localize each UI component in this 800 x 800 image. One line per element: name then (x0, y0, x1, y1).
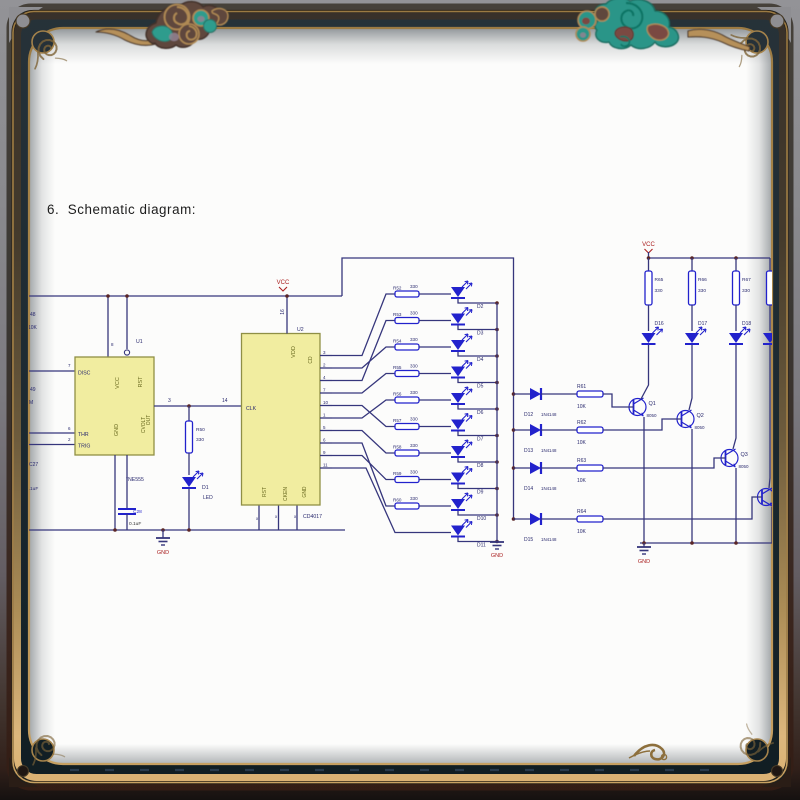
svg-text:10K: 10K (577, 478, 587, 484)
svg-text:R55: R55 (393, 365, 402, 370)
svg-text:330: 330 (655, 288, 663, 294)
svg-text:D18: D18 (742, 321, 751, 327)
svg-text:330: 330 (410, 311, 418, 316)
svg-text:U2: U2 (297, 327, 304, 333)
svg-text:C27: C27 (29, 462, 38, 468)
svg-text:1N4148: 1N4148 (541, 486, 557, 491)
svg-text:OUT: OUT (146, 415, 152, 426)
svg-text:330: 330 (196, 437, 204, 443)
svg-text:M: M (29, 400, 33, 406)
svg-text:GND: GND (491, 553, 503, 559)
svg-text:R50: R50 (196, 427, 205, 433)
svg-text:THR: THR (78, 432, 89, 438)
svg-text:D13: D13 (524, 448, 533, 454)
svg-text:CD4017: CD4017 (303, 514, 322, 520)
svg-text:R59: R59 (393, 471, 402, 476)
svg-text:R58: R58 (393, 445, 402, 450)
svg-text:8050: 8050 (739, 464, 750, 469)
svg-text:R66: R66 (698, 277, 707, 283)
svg-text:R62: R62 (577, 420, 586, 426)
svg-text:3: 3 (168, 398, 171, 404)
svg-text:D15: D15 (524, 537, 533, 543)
svg-text:11: 11 (323, 463, 328, 468)
svg-text:R57: R57 (393, 418, 402, 423)
svg-text:CLK: CLK (246, 406, 257, 412)
svg-text:330: 330 (410, 337, 418, 342)
svg-text:R60: R60 (393, 498, 402, 503)
svg-text:R53: R53 (393, 312, 402, 317)
svg-text:GND: GND (638, 559, 650, 565)
svg-text:330: 330 (410, 390, 418, 395)
svg-text:C28: C28 (133, 509, 142, 515)
svg-text:D7: D7 (477, 437, 484, 443)
svg-text:RST: RST (262, 487, 268, 497)
svg-text:8050: 8050 (695, 425, 706, 430)
svg-text:D5: D5 (477, 384, 484, 390)
svg-text:D9: D9 (477, 490, 484, 496)
svg-text:GND: GND (114, 424, 120, 436)
svg-text:10: 10 (323, 400, 329, 405)
svg-text:R64: R64 (577, 509, 586, 515)
svg-text:R52: R52 (393, 286, 402, 291)
svg-text:TRIG: TRIG (78, 444, 90, 450)
svg-text:VCC: VCC (115, 377, 121, 389)
svg-text:330: 330 (410, 470, 418, 475)
svg-text:D1: D1 (202, 485, 209, 491)
svg-text:330: 330 (410, 284, 418, 289)
svg-text:49: 49 (30, 387, 36, 393)
svg-text:10K: 10K (577, 529, 587, 535)
svg-text:330: 330 (410, 496, 418, 501)
svg-text:330: 330 (410, 364, 418, 369)
svg-text:10K: 10K (577, 404, 587, 410)
svg-text:VCC: VCC (277, 280, 290, 286)
svg-text:Q1: Q1 (649, 401, 656, 407)
svg-text:10K: 10K (577, 440, 587, 446)
svg-text:D2: D2 (477, 304, 484, 310)
svg-text:VCC: VCC (642, 242, 655, 248)
svg-text:14: 14 (222, 398, 228, 404)
svg-text:16: 16 (280, 309, 286, 315)
svg-text:RST: RST (138, 376, 144, 388)
svg-text:330: 330 (698, 288, 706, 294)
svg-text:DISC: DISC (78, 371, 91, 377)
svg-text:LED: LED (203, 495, 213, 501)
svg-text:Q3: Q3 (741, 452, 748, 458)
svg-text:VDD: VDD (291, 346, 297, 358)
svg-text:R67: R67 (742, 277, 751, 283)
svg-text:1N4148: 1N4148 (541, 412, 557, 417)
svg-text:D10: D10 (477, 516, 486, 522)
svg-text:CKEN: CKEN (283, 487, 289, 501)
svg-text:1N4148: 1N4148 (541, 448, 557, 453)
svg-text:GND: GND (302, 486, 308, 498)
svg-text:D14: D14 (524, 486, 533, 492)
svg-text:*NE555: *NE555 (126, 477, 144, 483)
svg-text:D12: D12 (524, 412, 533, 418)
svg-text:R56: R56 (393, 392, 402, 397)
svg-text:8050: 8050 (647, 413, 658, 418)
svg-text:U1: U1 (136, 339, 143, 345)
svg-text:330: 330 (410, 443, 418, 448)
svg-text:R63: R63 (577, 458, 586, 464)
svg-text:D8: D8 (477, 463, 484, 469)
svg-text:1N4148: 1N4148 (541, 537, 557, 542)
svg-text:330: 330 (742, 288, 750, 294)
svg-text:D16: D16 (655, 321, 664, 327)
svg-text:R65: R65 (655, 277, 664, 283)
svg-text:D11: D11 (477, 543, 486, 549)
svg-text:330: 330 (410, 417, 418, 422)
svg-text:R61: R61 (577, 384, 586, 390)
svg-text:D6: D6 (477, 410, 484, 416)
svg-text:R54: R54 (393, 339, 402, 344)
svg-text:CD: CD (308, 356, 314, 364)
svg-text:0.1uF: 0.1uF (129, 521, 141, 527)
svg-text:D17: D17 (698, 321, 707, 327)
svg-text:GND: GND (157, 550, 169, 556)
svg-text:10K: 10K (28, 325, 38, 331)
svg-text:48: 48 (30, 312, 36, 318)
svg-text:Q2: Q2 (697, 413, 704, 419)
svg-text:6. Schematic diagram:: 6. Schematic diagram: (47, 202, 196, 217)
svg-text:D3: D3 (477, 331, 484, 337)
svg-text:D4: D4 (477, 357, 484, 363)
